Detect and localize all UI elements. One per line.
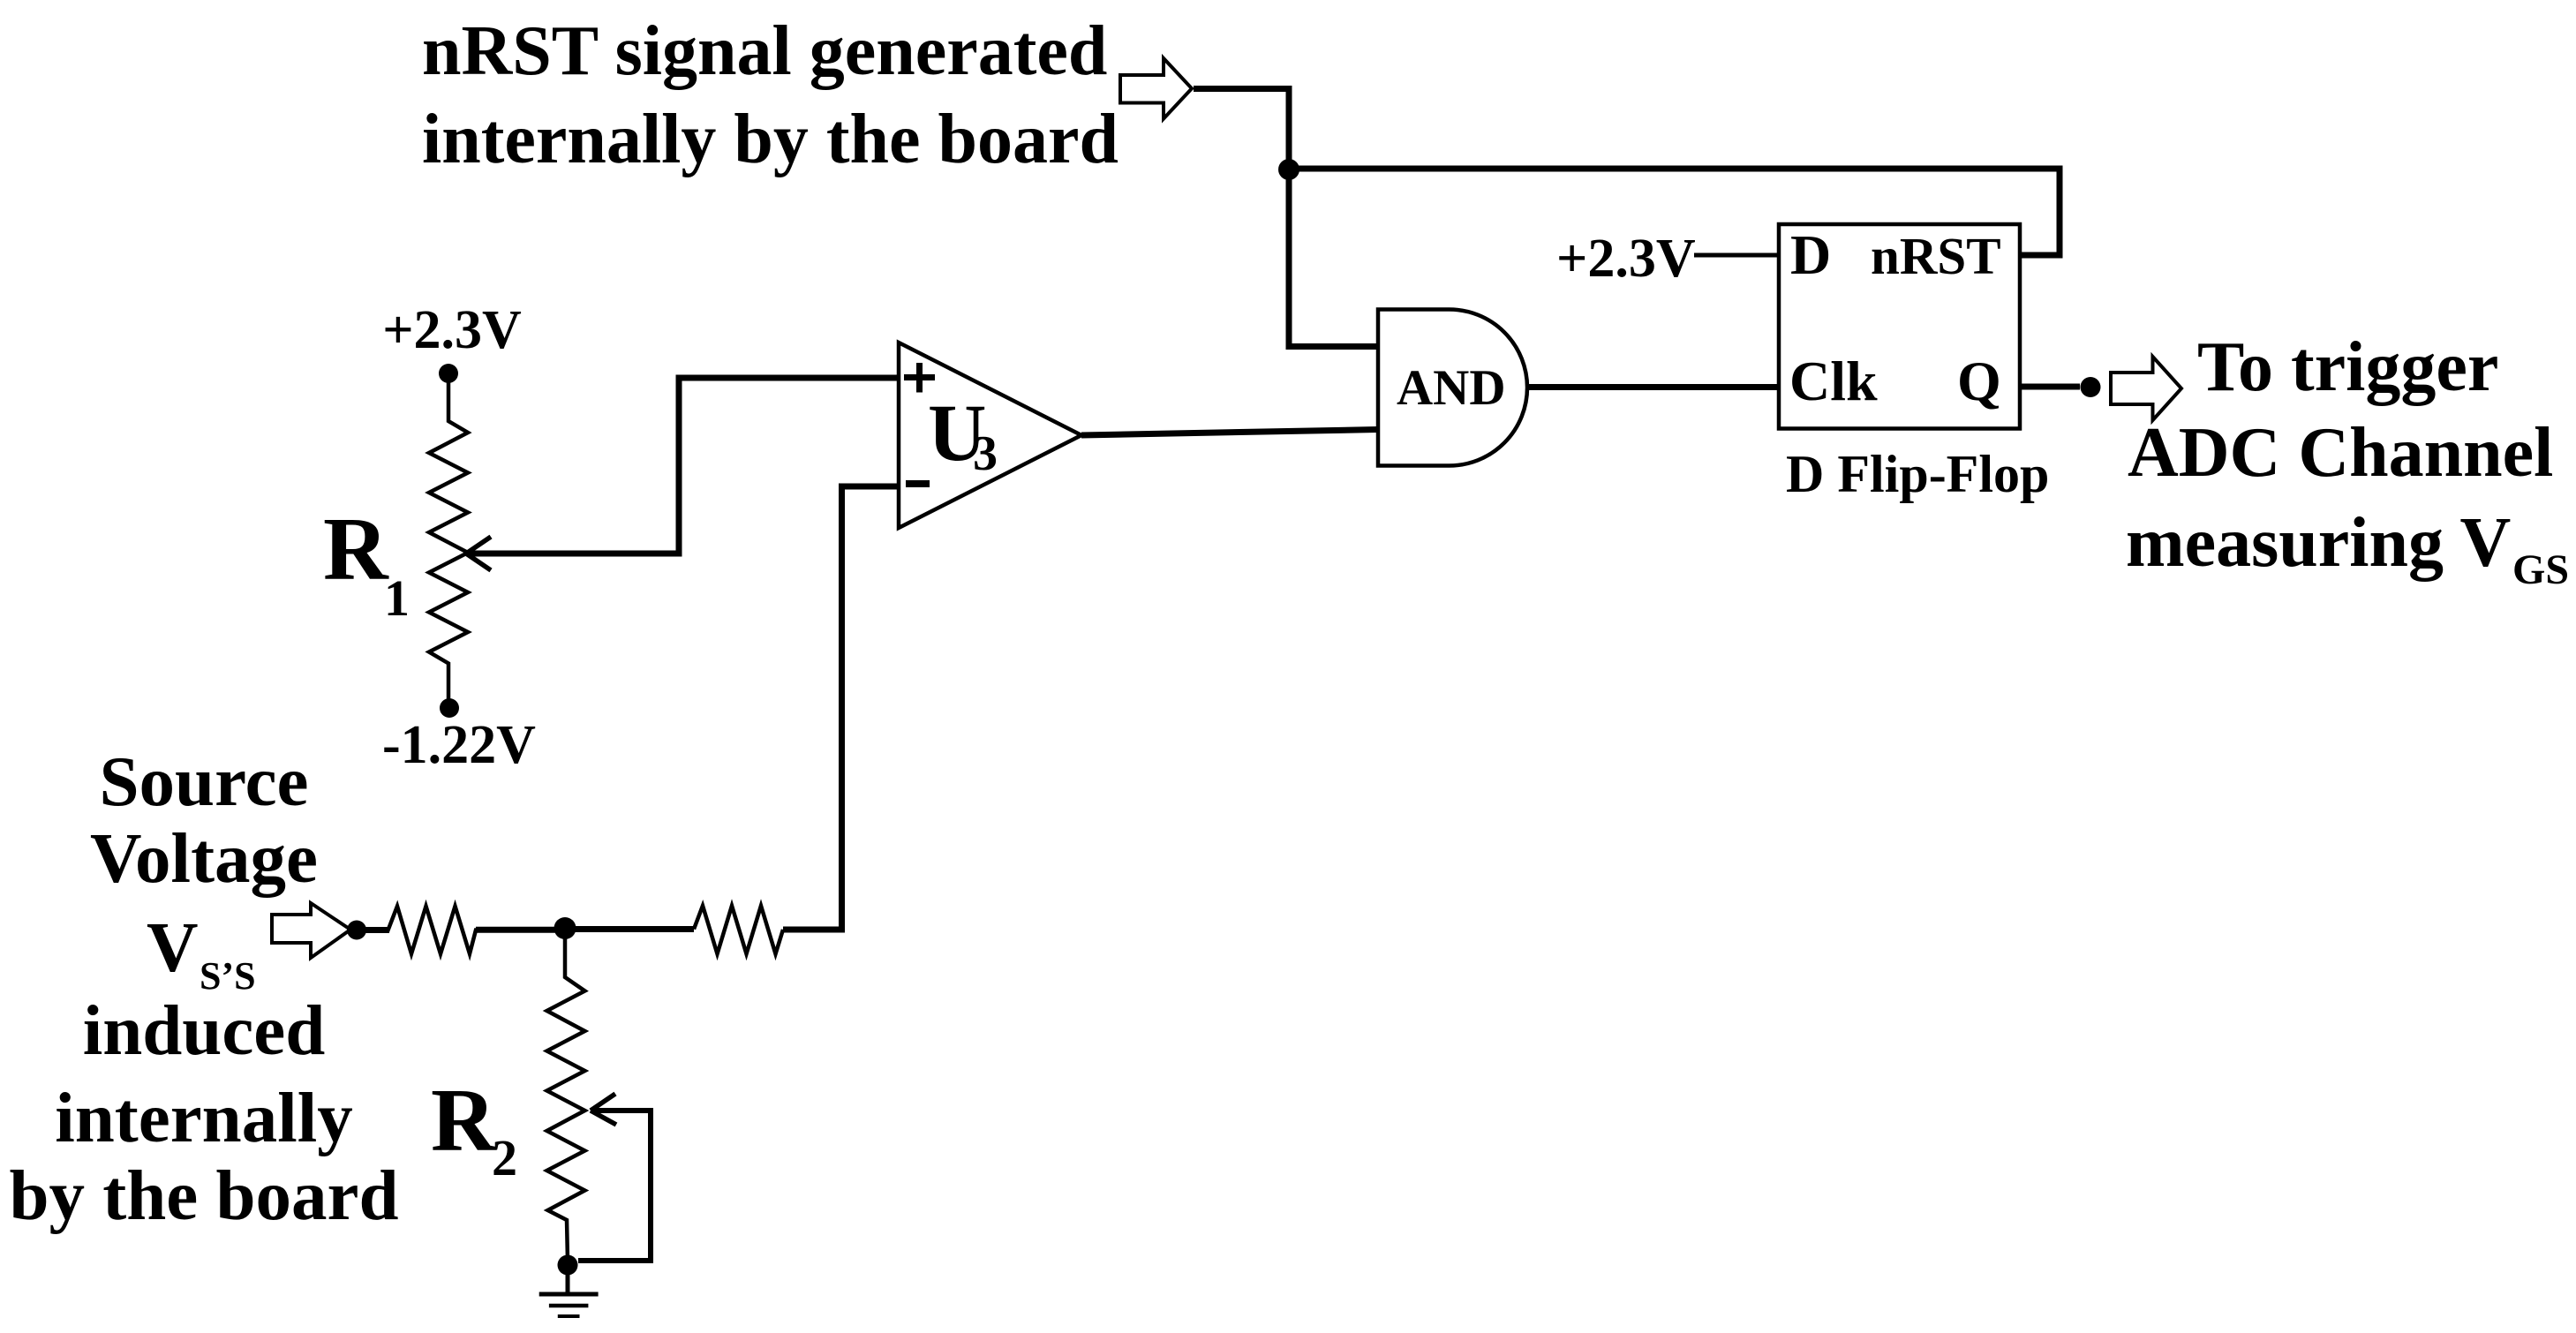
resistor (left horizontal) bbox=[357, 907, 565, 954]
label -1.22V bbox=[382, 715, 536, 775]
Q output arrow bbox=[2111, 357, 2181, 420]
label: Source Voltage VS'S text bbox=[9, 742, 398, 1235]
label: To trigger ADC Channel bbox=[2126, 328, 2569, 593]
label +2.3V (D input) bbox=[1556, 229, 1696, 289]
svg-text:internally: internally bbox=[55, 1078, 353, 1157]
svg-text:2: 2 bbox=[492, 1129, 517, 1186]
label: nRST signal text bbox=[422, 12, 1119, 178]
node: source input dot bbox=[347, 921, 366, 940]
wire: junction to right resistor bbox=[565, 926, 694, 932]
wire from nRST arrow to junction bbox=[1194, 89, 1289, 170]
svg-text:nRST: nRST bbox=[1871, 227, 2001, 285]
svg-text:GS: GS bbox=[2512, 546, 2569, 593]
wire: dot to left resistor bbox=[357, 927, 565, 933]
label U3 bbox=[928, 388, 998, 481]
svg-text:measuring V: measuring V bbox=[2126, 504, 2511, 582]
node: nRST junction bbox=[1278, 159, 1299, 180]
svg-text:1: 1 bbox=[384, 569, 410, 627]
node: bottom junction bbox=[554, 917, 576, 939]
svg-text:by the board: by the board bbox=[9, 1156, 398, 1235]
AND gate bbox=[1378, 310, 1527, 466]
svg-text:Source: Source bbox=[100, 742, 309, 821]
node: Q output dot bbox=[2081, 377, 2101, 397]
svg-text:R: R bbox=[431, 1071, 497, 1171]
wire: junction down to AND top input bbox=[1289, 169, 1378, 347]
nRST input arrow bbox=[1120, 58, 1192, 119]
svg-text:V: V bbox=[147, 907, 199, 987]
wire: R1 wiper to op-amp + input bbox=[466, 378, 899, 570]
op-amp - symbol bbox=[906, 480, 930, 487]
svg-text:D Flip-Flop: D Flip-Flop bbox=[1786, 445, 2049, 503]
ground bbox=[539, 1265, 599, 1316]
node: R1 bottom terminal bbox=[440, 698, 459, 718]
label R2 bbox=[431, 1071, 517, 1186]
wire: op-amp output to AND bottom input bbox=[1081, 430, 1378, 436]
label +2.3V (R1 top) bbox=[382, 300, 522, 360]
svg-text:induced: induced bbox=[83, 990, 326, 1070]
wire: bottom network to op-amp - input bbox=[783, 486, 899, 930]
svg-text:internally by the board: internally by the board bbox=[422, 101, 1119, 178]
source voltage arrow bbox=[272, 903, 350, 958]
D flip-flop box bbox=[1779, 223, 2020, 429]
resistor R1 (potentiometer) bbox=[429, 373, 468, 708]
resistor (right horizontal) bbox=[694, 906, 783, 954]
wire: Q output bbox=[2020, 384, 2080, 390]
svg-text:3: 3 bbox=[973, 426, 998, 481]
svg-text:Clk: Clk bbox=[1789, 350, 1878, 412]
label D Flip-Flop bbox=[1786, 445, 2049, 503]
svg-text:D: D bbox=[1790, 223, 1831, 286]
svg-text:+2.3V: +2.3V bbox=[1556, 229, 1696, 289]
label R1 bbox=[323, 500, 410, 627]
node: R2 bottom terminal bbox=[558, 1255, 578, 1276]
svg-text:+2.3V: +2.3V bbox=[382, 300, 522, 360]
svg-text:ADC Channel: ADC Channel bbox=[2128, 414, 2553, 492]
svg-text:AND: AND bbox=[1397, 360, 1506, 416]
wire: +2.3V to D input bbox=[1694, 253, 1779, 258]
op-amp U3 triangle bbox=[899, 343, 1081, 528]
svg-text:Q: Q bbox=[1957, 350, 2001, 412]
svg-text:nRST signal generated: nRST signal generated bbox=[422, 12, 1107, 90]
node: R1 top terminal bbox=[439, 364, 458, 383]
svg-text:-1.22V: -1.22V bbox=[382, 715, 536, 775]
op-amp + symbol bbox=[904, 363, 935, 393]
svg-text:To trigger: To trigger bbox=[2197, 328, 2498, 406]
wire: nRST rail to flip-flop bbox=[1289, 169, 2060, 255]
wire: AND output to Clk bbox=[1527, 384, 1779, 390]
svg-text:R: R bbox=[323, 500, 389, 599]
resistor R2 (potentiometer) bbox=[547, 928, 585, 1261]
wire: R2 wiper loop bbox=[578, 1094, 651, 1261]
svg-text:Voltage: Voltage bbox=[90, 818, 318, 898]
